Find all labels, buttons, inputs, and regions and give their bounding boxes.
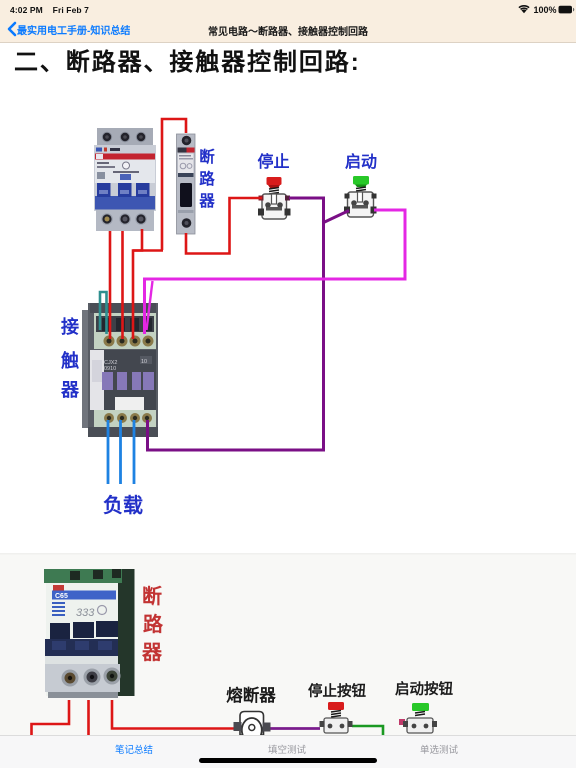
breaker QF1 (3-pole, photo) bbox=[94, 128, 156, 231]
wire L-feed to breaker QF2 (red top loop) bbox=[162, 119, 186, 250]
svg-text:100%: 100% bbox=[534, 5, 557, 15]
svg-text:0910: 0910 bbox=[104, 366, 116, 372]
wire stop button to junction node (dark purple) bbox=[148, 198, 324, 450]
wire magenta loop strand at coil terminal bbox=[147, 281, 153, 330]
svg-text:停止按钮: 停止按钮 bbox=[308, 682, 366, 700]
svg-text:333: 333 bbox=[76, 607, 95, 619]
svg-text:器: 器 bbox=[141, 641, 163, 664]
home indicator bbox=[199, 758, 377, 763]
wire phase A down-left (red) bbox=[32, 700, 70, 736]
back button bbox=[6, 21, 18, 37]
breaker QF3 (3-pole, photo 2) bbox=[44, 569, 135, 698]
svg-text:10: 10 bbox=[141, 359, 147, 365]
wire breaker QF1 pole1 to contactor (red) bbox=[109, 231, 112, 339]
wire breaker QF1 pole2 to contactor (red) bbox=[121, 231, 124, 339]
svg-text:接: 接 bbox=[61, 316, 79, 337]
svg-text:断: 断 bbox=[199, 147, 215, 166]
contactor KM (photo) bbox=[82, 303, 158, 437]
fuse FU (schematic) bbox=[234, 712, 271, 743]
wire start button to contactor coil A1 (magenta) bbox=[145, 210, 406, 334]
svg-text:熔断器: 熔断器 bbox=[226, 685, 276, 705]
svg-text:C65: C65 bbox=[55, 593, 68, 600]
svg-text:断: 断 bbox=[142, 584, 162, 608]
wire phase C to fuse (red) bbox=[112, 700, 236, 729]
start button SB4 (photo2, green cap) bbox=[403, 703, 437, 733]
start button SB2 (green cap) bbox=[344, 176, 377, 217]
svg-text:器: 器 bbox=[198, 192, 215, 210]
wire stop to start (green) bbox=[352, 726, 383, 736]
stop button SB1 (red cap) bbox=[258, 177, 291, 219]
svg-text:触: 触 bbox=[61, 350, 79, 371]
svg-text:启动按钮: 启动按钮 bbox=[395, 680, 453, 698]
wire QF2 bottom to stop button (red) bbox=[186, 198, 262, 254]
battery icon bbox=[559, 6, 573, 14]
svg-text:路: 路 bbox=[199, 169, 215, 188]
wire stub at start button (magenta) bbox=[399, 719, 405, 725]
wire fuse to stop button (purple) bbox=[267, 727, 320, 730]
breaker QF2 (1-pole, photo) bbox=[177, 134, 196, 234]
tab bar bbox=[0, 735, 576, 768]
wire junction to start button (dark purple diagonal) bbox=[323, 211, 350, 224]
svg-text:器: 器 bbox=[60, 380, 80, 400]
wire teal hook on contactor terminal 1 bbox=[100, 292, 107, 334]
wire junction pole3 to QF2 feed (red) bbox=[133, 249, 163, 252]
wire breaker QF1 pole3 jog to contactor (red) bbox=[133, 229, 142, 339]
load wire U (blue) bbox=[107, 420, 110, 484]
wifi icon bbox=[518, 5, 529, 13]
svg-text:启动: 启动 bbox=[345, 152, 377, 171]
svg-text:停止: 停止 bbox=[257, 152, 289, 171]
load wire V (blue) bbox=[119, 420, 122, 484]
svg-text:路: 路 bbox=[143, 612, 164, 636]
stop button SB3 (photo2, red cap) bbox=[320, 702, 353, 733]
section heading bbox=[14, 42, 361, 77]
load wire W (blue) bbox=[133, 420, 136, 484]
svg-text:负载: 负载 bbox=[103, 493, 143, 517]
status bar bbox=[0, 0, 576, 43]
wire phase B down (red) bbox=[87, 700, 90, 736]
